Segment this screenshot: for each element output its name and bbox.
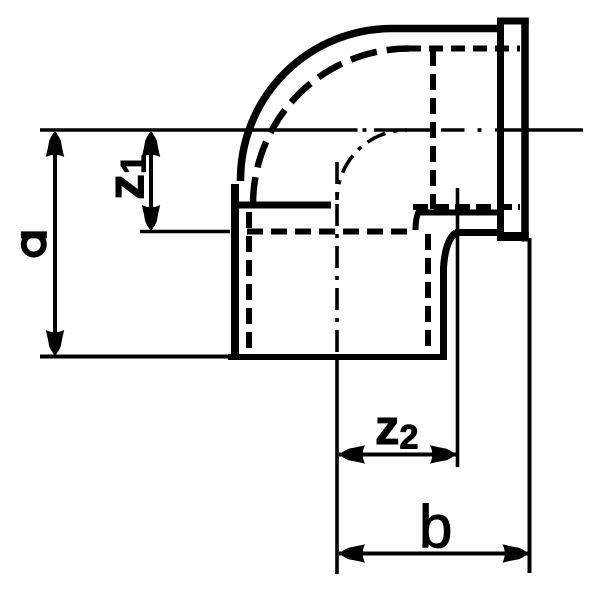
dimension z1: bottom arrow — [142, 205, 160, 231]
hidden thread end vertical of right socket (dashed) — [430, 50, 436, 209]
dimension z1: top arrow — [142, 131, 160, 157]
svg-text:z2: z2 — [375, 401, 418, 457]
bottom face line — [40, 355, 230, 359]
svg-text:b: b — [419, 493, 452, 560]
shoulder line of bottom socket — [234, 202, 331, 209]
horizontal centerline y=130 — [40, 128, 358, 132]
right socket bottom outer line — [455, 229, 499, 236]
dimension a: top arrow — [46, 131, 64, 157]
z2 left arrow — [339, 445, 365, 463]
hidden bore right line of bottom socket (dashed) — [425, 234, 431, 350]
flange right vertical line — [521, 18, 529, 242]
hidden bore line bottom of right socket (dashed) — [413, 204, 520, 210]
label a (rotated) — [21, 235, 47, 255]
b left arrow — [339, 544, 365, 562]
flange left vertical line — [497, 18, 504, 238]
z2 right arrow — [430, 445, 456, 463]
band solid line of right socket — [421, 210, 500, 216]
centerline bend arc (dash-dot) — [337, 130, 407, 200]
z1 bottom extension line — [140, 230, 230, 234]
extension line for z2 right — [456, 188, 460, 467]
dimension a: vertical line — [53, 133, 57, 354]
dimension z2: horizontal line — [339, 453, 456, 457]
dimension b: horizontal line — [339, 552, 528, 556]
flange top cap — [497, 18, 529, 25]
vertical centerline x=337 — [335, 162, 339, 360]
hidden bore line top of right socket (dashed) — [407, 46, 520, 52]
extension line for b right (below flange) — [528, 238, 532, 573]
b right arrow — [503, 544, 529, 562]
elbow outer contour: left wall, outer arc, top line — [231, 184, 239, 357]
wall curve from socket bottom to vertical wall — [444, 233, 457, 356]
dimension a: bottom arrow — [46, 330, 64, 356]
flange bottom cap — [497, 232, 529, 241]
hidden bore left line of bottom socket (dashed) — [246, 212, 252, 352]
dimension z1: vertical line — [149, 133, 153, 229]
hidden bore arc (dashed) — [253, 49, 409, 205]
shoulder fillet left of band — [416, 207, 422, 230]
svg-text:z1: z1 — [98, 155, 156, 200]
hidden thread end horizontal of bottom socket (dashed) — [247, 229, 415, 235]
